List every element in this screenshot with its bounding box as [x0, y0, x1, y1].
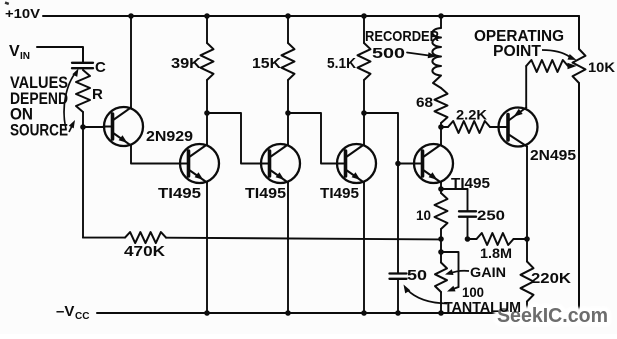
capacitor C	[72, 62, 93, 64]
svg-text:100: 100	[462, 284, 484, 300]
resistor 39K	[206, 16, 208, 43]
wire R bottom to input node	[82, 112, 84, 127]
arrow TANTALUM to 50uF cap	[407, 290, 447, 304]
transistor Q4 TI495	[337, 144, 376, 183]
wire 50uF cap to bottom rail	[397, 279, 399, 313]
node 50uF at bottom rail	[395, 310, 401, 316]
wiper arm zigzag to 10K	[526, 60, 568, 72]
svg-text:50: 50	[407, 267, 427, 284]
wire step collector Q3 to base Q4	[288, 113, 338, 164]
svg-text:TANTALUM: TANTALUM	[444, 300, 521, 316]
capacitor 250	[441, 188, 468, 190]
node 250 cap junction	[465, 236, 471, 242]
wire base of 2N929	[83, 126, 105, 128]
node rail junction x=364	[361, 13, 367, 19]
resistor 1.8M	[468, 238, 477, 240]
node Q3 emitter at bottom rail	[285, 310, 291, 316]
svg-text:220K: 220K	[531, 270, 571, 287]
node rail junction x=288	[285, 13, 291, 19]
scan speck	[5, 1, 10, 5]
transistor Q5 TI495	[414, 144, 453, 183]
svg-text:10K: 10K	[588, 59, 615, 75]
wire 2N929 emitter to first TI495 base	[131, 146, 181, 164]
svg-text:SOURCE: SOURCE	[10, 121, 68, 140]
wire base Q5	[398, 163, 415, 165]
node 2N929 collector at rail	[128, 13, 134, 19]
node 1.8M / 220K / 2N495 collector junction	[524, 236, 530, 242]
svg-text:1.8M: 1.8M	[480, 245, 512, 261]
node collector Q5 / 68 / 2.2K junction	[438, 124, 444, 130]
node emitter Q5 junction	[438, 186, 444, 192]
resistor 470K feedback	[83, 237, 125, 239]
wire step collector Q2 to base Q3	[207, 113, 262, 164]
svg-text:15K: 15K	[252, 55, 281, 72]
svg-text:TI495: TI495	[245, 185, 286, 202]
transistor Q1 2N929	[104, 107, 143, 146]
svg-text:250: 250	[477, 207, 505, 223]
node 220K at bottom rail	[524, 310, 530, 316]
node base Q5 junction	[395, 161, 401, 167]
resistor RECORDER 500 (rheostat)	[440, 16, 442, 28]
wire step collector Q4 down to base Q5 node	[364, 113, 398, 164]
resistor 220K	[526, 239, 528, 262]
svg-text:+10V: +10V	[5, 7, 41, 21]
watermark SeekIC.com	[497, 304, 608, 327]
svg-text:2.2K: 2.2K	[456, 107, 487, 123]
svg-text:–V: –V	[56, 303, 74, 320]
arrow 500 wiper	[407, 53, 429, 56]
wire gain pot wiper bracket	[441, 252, 459, 287]
resistor 10K (potentiometer on right edge)	[573, 49, 586, 83]
node rail junction recorder	[438, 13, 444, 19]
node collector junction x=288	[285, 110, 291, 116]
wire input node down to feedback line	[82, 127, 84, 238]
svg-text:2N495: 2N495	[530, 147, 576, 164]
svg-text:CC: CC	[75, 311, 89, 322]
arrow from SOURCE to resistor R	[69, 123, 74, 132]
svg-text:470K: 470K	[124, 243, 165, 260]
wire 2N495 emitter up to 10K wiper	[525, 66, 527, 108]
transistor Q6 2N495	[499, 108, 538, 147]
arrow operating point	[542, 50, 570, 57]
node Q2 emitter at bottom rail	[204, 310, 210, 316]
node gain pot wiper tie	[438, 249, 444, 255]
wire 2N495 collector down	[526, 147, 528, 240]
resistor 15K	[287, 16, 289, 43]
resistor 68	[435, 88, 448, 123]
svg-text:68: 68	[416, 94, 433, 110]
wire Vin lead	[37, 47, 83, 62]
svg-text:POINT: POINT	[493, 43, 542, 60]
svg-text:5.1K: 5.1K	[327, 55, 356, 72]
svg-text:C: C	[95, 59, 106, 76]
node rail junction x=207	[204, 13, 210, 19]
wire bottom -Vcc rail	[97, 312, 579, 314]
svg-text:V: V	[9, 43, 20, 60]
svg-text:GAIN: GAIN	[470, 264, 506, 280]
svg-text:2N929: 2N929	[146, 128, 193, 145]
resistor 5.1K	[363, 16, 365, 43]
transistor Q2 TI495	[180, 144, 219, 183]
resistor 2.2K	[441, 126, 448, 128]
wire right edge vertical	[578, 16, 580, 49]
capacitor 50	[390, 272, 407, 274]
svg-text:TI495: TI495	[158, 185, 201, 202]
svg-text:10: 10	[416, 207, 431, 223]
svg-text:IN: IN	[20, 51, 30, 62]
node collector junction x=207	[204, 110, 210, 116]
svg-text:R: R	[92, 86, 103, 103]
wire bypass branch down to 50uF cap	[397, 164, 399, 274]
arrow from SOURCE to capacitor C	[64, 72, 76, 130]
svg-text:RECORDER: RECORDER	[365, 28, 439, 45]
node collector junction x=364	[361, 110, 367, 116]
svg-text:TI495: TI495	[320, 185, 359, 202]
resistor GAIN 100 TANTALUM pot	[435, 263, 447, 293]
svg-text:39K: 39K	[171, 55, 201, 72]
node input junction	[80, 124, 86, 130]
resistor R	[76, 70, 90, 112]
wire top +10V rail	[43, 15, 579, 17]
wire 10 ohm to gain pot	[440, 239, 442, 263]
resistor 10	[440, 189, 442, 193]
node feedback / 10 ohm junction	[438, 236, 444, 242]
node gain pot at bottom rail	[438, 310, 444, 316]
transistor Q3 TI495	[261, 144, 300, 183]
svg-text:500: 500	[372, 45, 405, 62]
node Q4 emitter at bottom rail	[361, 310, 367, 316]
